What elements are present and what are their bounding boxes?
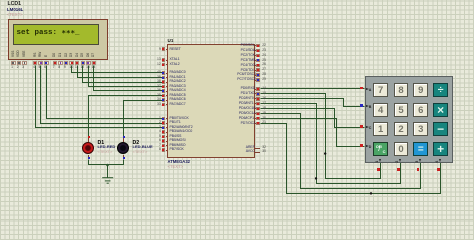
wire ground stem xyxy=(107,165,109,178)
LED D1 anode indicator xyxy=(88,136,90,138)
wire LCD D7 to U1 PA4 xyxy=(94,66,163,91)
LCD LCD1 ref label xyxy=(8,2,22,7)
keypad button ON/C xyxy=(373,142,388,156)
LED D1 cathode indicator xyxy=(88,157,90,159)
ground symbol xyxy=(102,178,113,184)
keypad button + xyxy=(433,142,448,156)
wire U1 PD4 to keypad row C xyxy=(261,109,365,128)
U1 value label ATMEGA32 xyxy=(168,160,191,164)
junction on keypad col 4 wire xyxy=(370,192,372,194)
LED D2 labels xyxy=(133,141,140,146)
wire LCD D3 to U1 PA0 xyxy=(72,66,163,73)
wire U1 PD3 to keypad col 2 xyxy=(261,104,401,184)
keypad row pins A-D xyxy=(360,87,363,90)
LCD pin name labels xyxy=(12,51,15,57)
wire U1 PA5 to LED D1 anode xyxy=(89,96,163,137)
LED D2 cathode indicator xyxy=(123,157,125,159)
wire U1 PD1 to keypad col 1 xyxy=(261,94,381,179)
wire U1 PD5 to keypad col 3 xyxy=(261,114,421,189)
keypad button 7 xyxy=(373,83,388,97)
wire U1 PA6 to LED D2 anode xyxy=(124,101,163,137)
microcontroller U1 ATMEGA32 body xyxy=(167,44,255,158)
keypad button 4 xyxy=(373,103,388,117)
LCD pin terminals 1-14 xyxy=(11,61,16,66)
LED D1 labels xyxy=(98,141,105,146)
junction on col 1 wire xyxy=(324,152,326,154)
keypad button 2 xyxy=(394,122,409,136)
wire LCD RW to U1 PB1 xyxy=(41,66,163,124)
wire LCD D5 to U1 PA2 xyxy=(83,66,163,83)
wire LED cathodes to ground node xyxy=(89,160,124,165)
wire LCD E to U1 PB0 xyxy=(47,66,163,119)
keypad column pins 1-4 xyxy=(377,168,380,171)
junction ground node xyxy=(106,164,109,167)
wire LCD D6 to U1 PA3 xyxy=(89,66,163,87)
LCD screen xyxy=(13,24,99,46)
junction col1-col2 xyxy=(315,177,317,179)
wire U1 PD7 to keypad col 4 xyxy=(261,124,441,194)
LCD LM016L body xyxy=(8,19,108,60)
U1 right pins xyxy=(241,44,255,47)
U1 left pins xyxy=(170,48,181,51)
keypad button 5 xyxy=(394,103,409,117)
keypad button 8 xyxy=(394,83,409,97)
keypad button 1 xyxy=(373,122,388,136)
U1 ref label xyxy=(168,39,174,44)
keypad button &times; xyxy=(433,103,448,117)
keypad button 9 xyxy=(413,83,428,97)
keypad button 3 xyxy=(413,122,428,136)
LCD value label LM016L xyxy=(7,8,23,12)
keypad button 6 xyxy=(413,103,428,117)
keypad button = xyxy=(413,142,428,156)
wire LCD D4 to U1 PA1 xyxy=(78,66,163,78)
LED D2 xyxy=(123,138,124,142)
keypad panel xyxy=(365,76,453,163)
keypad button &divide; xyxy=(433,83,448,97)
keypad button 0 xyxy=(394,142,409,156)
LCD screen text xyxy=(17,30,80,38)
LED D2 anode indicator xyxy=(123,136,125,138)
wire LCD RS to U1 PB2 xyxy=(36,66,163,128)
LED D1 xyxy=(88,138,89,142)
keypad button &minus; xyxy=(433,122,448,136)
wire U1 PD2 to keypad row B xyxy=(261,99,365,107)
wire U1 PD6 to keypad row D xyxy=(261,119,365,147)
wire U1 PD0 to keypad row A xyxy=(261,88,365,90)
